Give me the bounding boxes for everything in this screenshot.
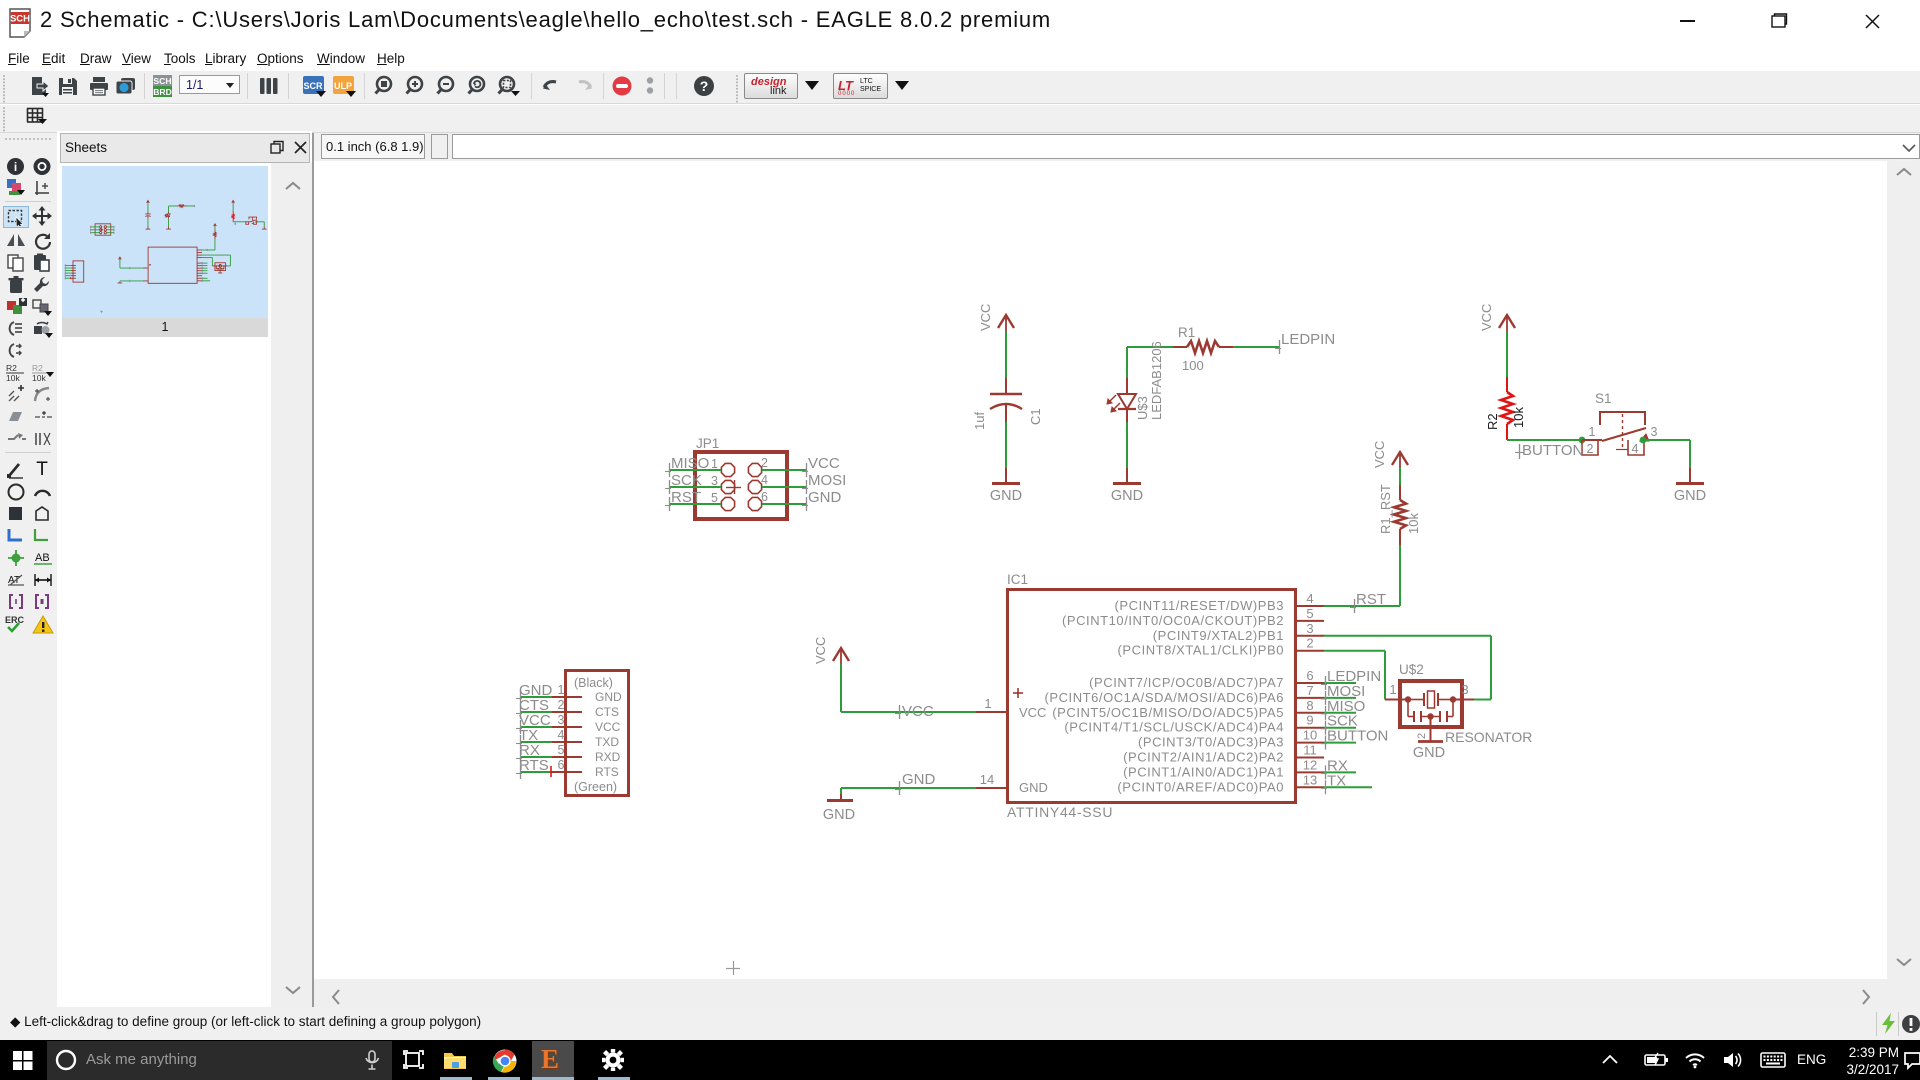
svg-text:100: 100 — [1182, 358, 1204, 373]
svg-text:GND: GND — [1111, 488, 1143, 504]
svg-text:R2: R2 — [32, 363, 43, 373]
svg-text:GND: GND — [902, 771, 936, 788]
svg-text:10: 10 — [1303, 728, 1317, 743]
svg-text:6: 6 — [558, 758, 565, 772]
svg-text:S1: S1 — [1595, 391, 1612, 406]
svg-text:RXD: RXD — [595, 750, 621, 764]
svg-text:8: 8 — [1306, 698, 1313, 713]
svg-text:RESONATOR: RESONATOR — [1445, 729, 1532, 745]
svg-text:4: 4 — [1632, 442, 1639, 456]
svg-text:6: 6 — [761, 490, 768, 504]
svg-text:(Black): (Black) — [574, 676, 613, 690]
svg-text:ATTINY44-SSU: ATTINY44-SSU — [1007, 804, 1113, 820]
svg-text:2: 2 — [558, 698, 565, 712]
svg-text:(PCINT4/T1/SCL/USCK/ADC4)PA4: (PCINT4/T1/SCL/USCK/ADC4)PA4 — [1064, 720, 1284, 735]
svg-text:TXD: TXD — [595, 735, 619, 749]
svg-text:1: 1 — [558, 683, 565, 697]
svg-text:VCC: VCC — [1372, 441, 1387, 468]
svg-text:(PCINT9/XTAL2)PB1: (PCINT9/XTAL2)PB1 — [1153, 628, 1284, 643]
svg-text:3: 3 — [1651, 425, 1658, 439]
svg-text:(PCINT10/INT0/OC0A/CKOUT)PB2: (PCINT10/INT0/OC0A/CKOUT)PB2 — [1062, 613, 1284, 628]
svg-text:CTS: CTS — [595, 705, 619, 719]
svg-text:3: 3 — [711, 474, 718, 488]
svg-text:T: T — [36, 459, 48, 479]
svg-text:4: 4 — [1306, 591, 1313, 606]
svg-text:i: i — [14, 160, 17, 174]
svg-text:R2: R2 — [1485, 413, 1500, 430]
svg-text:GND: GND — [595, 690, 622, 704]
svg-text:LEDFAB1206: LEDFAB1206 — [1149, 341, 1164, 420]
svg-text:13: 13 — [1303, 772, 1317, 787]
svg-text:1: 1 — [984, 696, 991, 711]
svg-text:R2: R2 — [6, 363, 17, 373]
svg-text:RST: RST — [671, 489, 701, 506]
svg-text:1: 1 — [711, 457, 718, 471]
svg-text:VCC: VCC — [1019, 705, 1046, 720]
svg-text:GND: GND — [990, 488, 1022, 504]
svg-text:6: 6 — [1306, 668, 1313, 683]
svg-text:(PCINT5/OC1B/MISO/DO/ADC5)PA5: (PCINT5/OC1B/MISO/DO/ADC5)PA5 — [1052, 705, 1284, 720]
svg-text:10k: 10k — [1406, 513, 1421, 534]
svg-text:10k: 10k — [1511, 407, 1526, 428]
svg-text:2: 2 — [1306, 636, 1313, 651]
svg-text:C1: C1 — [1028, 408, 1043, 425]
svg-text:(Green): (Green) — [574, 780, 617, 794]
svg-text:SCK: SCK — [671, 472, 702, 489]
svg-text:4: 4 — [558, 728, 565, 742]
svg-text:R1: R1 — [1178, 325, 1195, 340]
svg-text:(PCINT0/AREF/ADC0)PA0: (PCINT0/AREF/ADC0)PA0 — [1117, 779, 1284, 794]
svg-text:RTS: RTS — [519, 757, 549, 774]
svg-text:JP1: JP1 — [696, 436, 719, 451]
svg-text:(PCINT6/OC1A/SDA/MOSI/ADC6)PA6: (PCINT6/OC1A/SDA/MOSI/ADC6)PA6 — [1045, 690, 1284, 705]
svg-text:(PCINT11/RESET/DW)PB3: (PCINT11/RESET/DW)PB3 — [1115, 598, 1285, 613]
svg-text:2: 2 — [761, 456, 768, 470]
svg-text:U$2: U$2 — [1399, 662, 1424, 677]
svg-text:GND: GND — [1413, 745, 1445, 761]
svg-text:(PCINT1/AIN0/ADC1)PA1: (PCINT1/AIN0/ADC1)PA1 — [1123, 764, 1284, 779]
svg-text:4: 4 — [761, 473, 768, 487]
svg-text:10k: 10k — [32, 373, 46, 382]
svg-text:5: 5 — [558, 743, 565, 757]
svg-text:1: 1 — [1589, 425, 1596, 439]
svg-text:9: 9 — [1306, 713, 1313, 728]
svg-text:MISO: MISO — [671, 455, 709, 472]
svg-text:R1_RST: R1_RST — [1378, 484, 1393, 534]
svg-text:BUTTON: BUTTON — [1522, 442, 1583, 459]
svg-text:3: 3 — [558, 713, 565, 727]
svg-text:IC1: IC1 — [1007, 572, 1028, 587]
svg-text:MOSI: MOSI — [808, 472, 846, 489]
svg-text:GND: GND — [1674, 488, 1706, 504]
svg-text:11: 11 — [1303, 743, 1317, 758]
svg-text:12: 12 — [1303, 757, 1317, 772]
svg-text:(PCINT2/AIN1/ADC2)PA2: (PCINT2/AIN1/ADC2)PA2 — [1123, 750, 1284, 765]
svg-text:2: 2 — [1587, 442, 1594, 456]
svg-text:1: 1 — [1389, 682, 1396, 697]
svg-text:10k: 10k — [6, 373, 20, 382]
svg-text:U$3: U$3 — [1135, 396, 1150, 420]
svg-text:ERC: ERC — [5, 615, 25, 625]
svg-text:5: 5 — [1306, 606, 1313, 621]
svg-text:VCC: VCC — [978, 304, 993, 331]
svg-text:(PCINT3/T0/ADC3)PA3: (PCINT3/T0/ADC3)PA3 — [1138, 735, 1284, 750]
svg-text:BUTTON: BUTTON — [1327, 728, 1388, 745]
svg-text:7: 7 — [1306, 683, 1313, 698]
svg-text:(PCINT8/XTAL1/CLKI)PB0: (PCINT8/XTAL1/CLKI)PB0 — [1118, 643, 1284, 658]
svg-text:AT: AT — [8, 575, 20, 586]
svg-text:2: 2 — [1416, 733, 1428, 739]
svg-text:1uf: 1uf — [972, 412, 987, 430]
svg-text:GND: GND — [808, 489, 842, 506]
svg-text:VCC: VCC — [902, 703, 934, 720]
svg-text:RTS: RTS — [595, 765, 619, 779]
svg-text:VCC: VCC — [1479, 304, 1494, 331]
svg-text:AB: AB — [35, 552, 50, 564]
svg-text:VCC: VCC — [595, 720, 621, 734]
svg-text:(PCINT7/ICP/OC0B/ADC7)PA7: (PCINT7/ICP/OC0B/ADC7)PA7 — [1089, 675, 1284, 690]
svg-text:GND: GND — [1019, 780, 1048, 795]
svg-text:14: 14 — [980, 772, 994, 787]
svg-text:LEDPIN: LEDPIN — [1281, 331, 1335, 348]
svg-text:VCC: VCC — [813, 637, 828, 664]
svg-text:3: 3 — [1461, 682, 1468, 697]
svg-text:VCC: VCC — [808, 455, 840, 472]
svg-text:3: 3 — [1306, 621, 1313, 636]
svg-text:RST: RST — [1356, 591, 1386, 608]
svg-text:GND: GND — [823, 807, 855, 823]
svg-text:5: 5 — [711, 491, 718, 505]
svg-text:TX: TX — [1327, 772, 1346, 789]
